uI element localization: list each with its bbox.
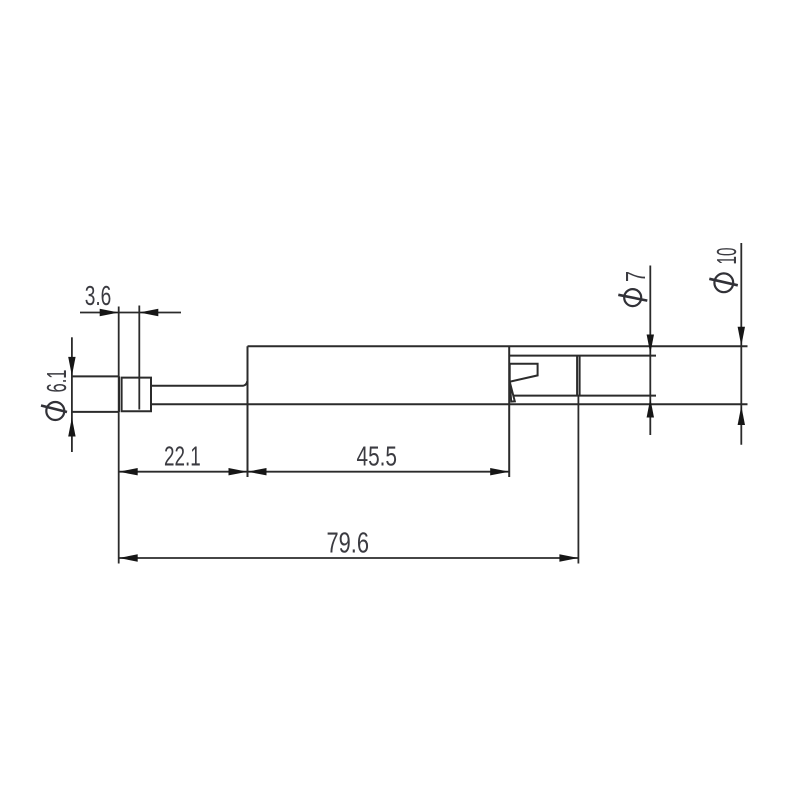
arrow 79.6 right <box>559 554 578 561</box>
dimension line 22.1 / 45.5 <box>119 471 510 473</box>
dimension line Φ6.1 <box>71 337 73 452</box>
svg-text:22.1: 22.1 <box>164 440 201 471</box>
dimension line 79.6 <box>119 557 579 559</box>
arrow Φ10 top <box>738 327 745 346</box>
svg-text:10: 10 <box>711 248 742 265</box>
dimension line 3.6 <box>80 312 181 314</box>
svg-text:79.6: 79.6 <box>327 528 370 560</box>
connector bottom edge Φ7 <box>514 395 657 397</box>
body left edge <box>247 346 249 477</box>
arrow 22.1 left <box>119 468 138 475</box>
extension line at 79.6 right <box>577 396 579 564</box>
diameter symbol for 7 <box>624 289 641 306</box>
arrow 22.1 right <box>229 468 248 475</box>
arrow 3.6 right <box>139 309 158 316</box>
latch clip quad <box>510 364 538 382</box>
tip collar box <box>122 378 151 412</box>
arrow Φ7 bottom <box>647 399 654 418</box>
arrow 45.5 left <box>248 468 267 475</box>
body right step edge <box>508 346 510 477</box>
dimension line Φ7 <box>649 266 651 436</box>
body top long edge <box>248 345 748 347</box>
latch leg <box>510 382 515 402</box>
shaft top edge <box>151 381 247 386</box>
arrow Φ6.1 bottom <box>68 418 75 437</box>
arrow Φ7 top <box>647 335 654 354</box>
arrow 79.6 left <box>119 554 138 561</box>
extension line right of 3.6 <box>138 306 140 410</box>
connector top edge Φ7 <box>509 355 656 357</box>
svg-text:6.1: 6.1 <box>41 370 72 393</box>
dimension line Φ10 <box>740 243 742 445</box>
probe tip cylinder Φ6.1 <box>72 376 119 412</box>
svg-text:3.6: 3.6 <box>85 280 112 311</box>
diameter symbol for 10 <box>714 273 733 292</box>
extension line left of 3.6 <box>118 307 120 564</box>
arrow Φ10 bottom <box>738 406 745 425</box>
connector end cap lines <box>577 356 580 396</box>
svg-text:7: 7 <box>620 271 651 282</box>
body bottom long edge <box>151 403 748 405</box>
svg-text:45.5: 45.5 <box>357 441 398 472</box>
arrow Φ6.1 top <box>68 357 75 376</box>
arrow 3.6 left <box>100 309 119 316</box>
diameter symbol for 6.1 <box>46 402 64 420</box>
arrow 45.5 right <box>490 468 509 475</box>
